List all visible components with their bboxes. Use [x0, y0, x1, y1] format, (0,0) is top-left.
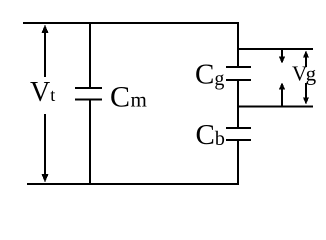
svg-text:Vg: Vg — [292, 62, 317, 86]
wire Cm branch lower — [89, 100, 91, 184]
wire vg arrow lower shaft — [305, 83, 307, 99]
svg-text:Cb: Cb — [196, 119, 225, 151]
Cm bottom plate — [75, 99, 102, 101]
inner up arrowhead — [279, 83, 285, 90]
wire top stub — [238, 48, 313, 50]
Vt top arrowhead — [42, 25, 49, 34]
inner down arrow — [279, 49, 285, 64]
wire top horizontal — [23, 22, 239, 24]
inner up arrow — [279, 83, 285, 107]
capacitor Cm — [75, 23, 102, 184]
inner down arrowhead — [279, 57, 285, 64]
wire bottom stub — [238, 106, 313, 108]
svg-text:Vt: Vt — [30, 77, 55, 108]
svg-text:Cg: Cg — [195, 59, 224, 91]
wire bottom horizontal — [27, 183, 239, 185]
Cg top plate — [226, 66, 251, 68]
vg measurement arrow — [303, 51, 309, 105]
capacitor Cb — [226, 127, 251, 141]
Cg bottom plate — [226, 79, 251, 81]
Cb bottom plate — [226, 139, 251, 141]
voltage source arrow Vt — [42, 25, 49, 183]
wire right branch middle — [237, 80, 239, 128]
wire right branch top — [237, 23, 239, 66]
wire inner down arrow shaft — [281, 49, 283, 57]
wire Cm branch upper — [89, 23, 91, 87]
wire vg arrow upper shaft — [305, 55, 307, 67]
wire Vt arrow lower shaft — [44, 114, 46, 175]
Cm top plate — [75, 87, 102, 89]
Vt bottom arrowhead — [42, 174, 49, 183]
Cb top plate — [226, 127, 251, 129]
svg-text:Cm: Cm — [110, 81, 147, 114]
wire Vt arrow upper shaft — [44, 30, 46, 77]
capacitor Cg — [226, 66, 251, 81]
vg bottom arrowhead — [303, 98, 309, 105]
vg top arrowhead — [303, 51, 309, 58]
wire right branch bottom — [237, 140, 239, 185]
wire inner up arrow shaft — [281, 89, 283, 106]
